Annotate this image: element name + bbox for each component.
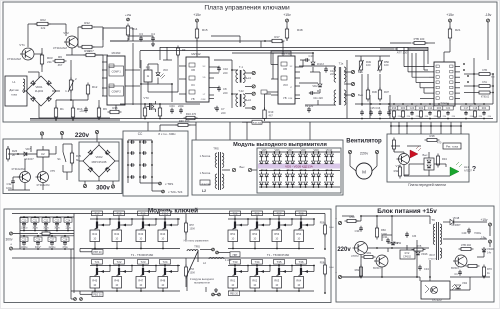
svg-text:+C1: +C1 xyxy=(79,109,85,113)
svg-text:СОМ: СОМ xyxy=(201,99,206,101)
svg-text:Вых2: Вых2 xyxy=(245,99,252,102)
svg-text:220n: 220n xyxy=(178,104,184,108)
svg-text:КТ3102АМ: КТ3102АМ xyxy=(7,57,21,61)
svg-text:КВРС3510В: КВРС3510В xyxy=(92,160,107,164)
svg-text:ВС547: ВС547 xyxy=(373,266,381,270)
svg-text:R15: R15 xyxy=(202,28,208,32)
svg-text:R32: R32 xyxy=(84,21,90,25)
svg-text:R1: R1 xyxy=(60,107,64,111)
svg-text:VT3: VT3 xyxy=(143,96,149,100)
svg-text:~: ~ xyxy=(335,271,337,275)
svg-text:R12: R12 xyxy=(92,85,98,89)
svg-text:C10: C10 xyxy=(223,67,228,71)
svg-text:С7А: С7А xyxy=(482,81,487,84)
svg-text:тока: тока xyxy=(11,93,17,97)
svg-text:220: 220 xyxy=(223,71,228,75)
svg-text:R48: R48 xyxy=(160,278,165,282)
svg-text:Вых: Вых xyxy=(239,165,245,169)
svg-text:C33: C33 xyxy=(412,236,417,238)
svg-text:R43: R43 xyxy=(138,232,143,236)
svg-text:C31: C31 xyxy=(383,235,388,239)
svg-text:R14: R14 xyxy=(132,27,138,31)
svg-text:+15v: +15v xyxy=(193,13,201,17)
svg-text:R63: R63 xyxy=(274,278,279,282)
svg-text:КТ3102АМ: КТ3102АМ xyxy=(53,46,67,50)
svg-text:R44: R44 xyxy=(160,232,165,236)
svg-text:VD2: VD2 xyxy=(462,281,468,285)
svg-text:VD2: VD2 xyxy=(312,84,318,88)
svg-text:C7: C7 xyxy=(221,107,225,111)
svg-text:R62: R62 xyxy=(252,278,257,282)
svg-text:300v: 300v xyxy=(6,238,13,242)
svg-text:100б: 100б xyxy=(190,272,196,275)
svg-text:КУ2: КУ2 xyxy=(405,251,410,255)
svg-text:-15v: -15v xyxy=(485,13,492,17)
svg-text:УВ: УВ xyxy=(283,96,287,100)
svg-text:M: M xyxy=(362,170,366,175)
svg-text:Выс: Выс xyxy=(423,153,429,157)
svg-text:На плату управления: На плату управления xyxy=(184,240,209,243)
svg-text:1.5витка: 1.5витка xyxy=(200,154,211,158)
svg-text:КТВ 202: КТВ 202 xyxy=(461,243,471,247)
svg-text:С20: С20 xyxy=(410,107,415,110)
svg-text:Блок питания +15v: Блок питания +15v xyxy=(377,208,437,215)
svg-text:VD16: VD16 xyxy=(421,252,428,256)
svg-text:R17: R17 xyxy=(274,35,280,39)
svg-text:ОВ: ОВ xyxy=(283,67,287,71)
svg-text:РВ2 20: РВ2 20 xyxy=(93,294,102,297)
svg-text:АТТ 100: АТТ 100 xyxy=(397,51,408,55)
svg-text:R24: R24 xyxy=(482,107,487,110)
svg-text:CC: CC xyxy=(138,132,143,136)
svg-text:R16 470: R16 470 xyxy=(186,112,197,116)
svg-text:R47: R47 xyxy=(138,278,143,282)
svg-text:HL1: HL1 xyxy=(464,165,469,169)
svg-text:467: 467 xyxy=(269,114,274,118)
svg-text:Т34: Т34 xyxy=(255,260,260,264)
svg-text:220v: 220v xyxy=(360,152,368,156)
svg-text:-15v: -15v xyxy=(480,236,487,240)
svg-text:VD7: VD7 xyxy=(25,147,31,151)
svg-text:КУ5: КУ5 xyxy=(417,244,422,248)
svg-text:100б: 100б xyxy=(190,228,196,231)
svg-text:?: ? xyxy=(472,166,476,173)
svg-text:R6: R6 xyxy=(58,55,62,59)
svg-text:R64: R64 xyxy=(296,278,301,282)
svg-text:R23: R23 xyxy=(437,107,442,110)
svg-text:R41: R41 xyxy=(92,232,97,236)
svg-text:R70: R70 xyxy=(487,267,492,271)
svg-text:220v: 220v xyxy=(75,132,90,139)
svg-text:R32: R32 xyxy=(394,169,399,173)
svg-text:14v: 14v xyxy=(487,251,492,255)
svg-text:R51: R51 xyxy=(230,232,235,236)
svg-text:22k: 22k xyxy=(41,26,46,30)
svg-text:Т21: Т21 xyxy=(95,260,100,264)
svg-text:Модуль выходного выпрямителя: Модуль выходного выпрямителя xyxy=(233,142,327,148)
svg-text:ХС: ХС xyxy=(203,66,206,68)
svg-text:470: 470 xyxy=(437,141,442,145)
svg-text:R20: R20 xyxy=(401,107,406,110)
svg-text:7000u: 7000u xyxy=(474,231,482,235)
svg-text:Плата управления ключами: Плата управления ключами xyxy=(204,5,290,12)
svg-text:220v: 220v xyxy=(337,247,351,253)
svg-text:VD: VD xyxy=(202,77,205,79)
svg-text:РВТ 20: РВТ 20 xyxy=(93,251,102,254)
svg-text:COMP 2: COMP 2 xyxy=(112,91,122,94)
svg-text:C32: C32 xyxy=(7,182,12,186)
svg-text:R19: R19 xyxy=(392,107,397,110)
svg-text:C15 C16: C15 C16 xyxy=(370,106,381,110)
svg-text:C23: C23 xyxy=(55,218,60,222)
svg-text:VD20: VD20 xyxy=(487,247,494,251)
svg-text:+15v: +15v xyxy=(446,13,454,17)
svg-text:СОМ: СОМ xyxy=(288,98,293,100)
svg-text:4 обм: 4 обм xyxy=(225,259,232,262)
svg-text:R36: R36 xyxy=(372,90,377,94)
svg-text:22k: 22k xyxy=(47,60,52,64)
svg-text:L1: L1 xyxy=(12,80,16,84)
svg-text:C34: C34 xyxy=(424,267,429,271)
svg-text:КТ8162: КТ8162 xyxy=(481,96,490,99)
svg-text:4 витка: 4 витка xyxy=(201,182,211,186)
svg-text:РВ5 20: РВ5 20 xyxy=(230,293,239,296)
svg-text:VD17: VD17 xyxy=(429,255,435,257)
svg-text:+15v: +15v xyxy=(480,218,487,222)
svg-text:220: 220 xyxy=(221,111,226,115)
svg-text:C04: C04 xyxy=(169,104,175,108)
svg-text:С24: С24 xyxy=(446,107,451,110)
svg-text:Т22: Т22 xyxy=(117,260,122,264)
svg-text:TRS: TRS xyxy=(213,147,219,151)
svg-text:R48: R48 xyxy=(297,28,303,32)
svg-text:М2712: М2712 xyxy=(191,52,201,56)
svg-text:КТ872: КТ872 xyxy=(351,254,359,258)
svg-text:Т1 - Т8 IRFP460: Т1 - Т8 IRFP460 xyxy=(267,253,290,257)
svg-text:ПВТ: ПВТ xyxy=(233,254,238,257)
svg-text:С18: С18 xyxy=(473,107,478,110)
svg-text:PC123: PC123 xyxy=(432,298,442,302)
svg-text:R38: R38 xyxy=(430,134,435,138)
svg-text:Т1 - Т8 IRFP460: Т1 - Т8 IRFP460 xyxy=(131,253,154,257)
svg-text:+15v: +15v xyxy=(283,13,291,17)
svg-text:C8: C8 xyxy=(223,87,227,91)
svg-text:R34: R34 xyxy=(442,157,447,161)
svg-text:R52: R52 xyxy=(252,232,257,236)
svg-text:С17: С17 xyxy=(464,107,469,110)
svg-text:Вых1: Вых1 xyxy=(245,77,252,80)
svg-text:Датчик: Датчик xyxy=(9,88,19,92)
svg-text:Т-02: Т-02 xyxy=(238,89,244,93)
svg-text:Т36: Т36 xyxy=(299,260,304,264)
svg-text:Т24: Т24 xyxy=(163,260,168,264)
svg-text:R62: R62 xyxy=(355,268,360,272)
svg-text:C11 220: C11 220 xyxy=(313,96,323,100)
svg-text:100б: 100б xyxy=(329,227,335,229)
svg-text:VT5: VT5 xyxy=(50,169,55,173)
svg-text:+: + xyxy=(10,243,12,247)
svg-text:Вентилятор: Вентилятор xyxy=(346,139,382,145)
svg-text:1.5витка: 1.5витка xyxy=(200,171,211,175)
svg-text:R9: R9 xyxy=(182,48,186,52)
svg-text:Т23: Т23 xyxy=(141,260,146,264)
svg-text:R46 300: R46 300 xyxy=(179,119,190,123)
svg-text:VD5 - VD26 КД213А: VD5 - VD26 КД213А xyxy=(285,165,313,169)
svg-text:R18 300: R18 300 xyxy=(253,122,262,124)
svg-text:C27: C27 xyxy=(50,238,55,242)
svg-text:РТВ 100: РТВ 100 xyxy=(414,37,425,41)
svg-text:S1: S1 xyxy=(57,157,61,161)
svg-text:R9: R9 xyxy=(103,107,107,111)
svg-text:100: 100 xyxy=(384,63,389,67)
svg-text:К2: К2 xyxy=(41,152,45,156)
svg-text:VD3: VD3 xyxy=(163,69,168,72)
svg-text:R16: R16 xyxy=(112,106,118,110)
svg-text:ОВ: ОВ xyxy=(191,68,195,72)
svg-text:x T20~T24: x T20~T24 xyxy=(168,190,183,194)
svg-text:R37: R37 xyxy=(384,90,389,94)
svg-text:R19: R19 xyxy=(269,110,274,114)
svg-text:C26: C26 xyxy=(36,238,41,242)
svg-text:R58: R58 xyxy=(320,262,325,265)
svg-text:300v: 300v xyxy=(96,185,110,192)
svg-text:R21: R21 xyxy=(455,28,461,32)
svg-text:КТ3102АМ: КТ3102АМ xyxy=(12,167,25,171)
svg-text:C4: C4 xyxy=(151,32,155,36)
svg-text:ВС547: ВС547 xyxy=(451,266,459,270)
svg-text:C22: C22 xyxy=(44,218,49,222)
svg-text:467: 467 xyxy=(58,63,63,67)
svg-text:~: ~ xyxy=(335,217,337,221)
svg-text:C20: C20 xyxy=(22,218,27,222)
svg-text:C3: C3 xyxy=(139,32,143,36)
svg-text:СР602: СР602 xyxy=(403,255,411,259)
svg-text:Плата передней панели: Плата передней панели xyxy=(408,183,446,187)
svg-text:R60: R60 xyxy=(381,228,386,232)
svg-text:C40: C40 xyxy=(462,231,467,235)
svg-text:UF4007: UF4007 xyxy=(24,157,34,161)
svg-text:R54: R54 xyxy=(296,232,301,236)
svg-text:R56: R56 xyxy=(320,222,325,225)
svg-text:Т35: Т35 xyxy=(277,260,282,264)
svg-text:R59: R59 xyxy=(350,215,355,219)
svg-text:COMP 1: COMP 1 xyxy=(112,71,122,74)
svg-text:8 x 1u - 600v: 8 x 1u - 600v xyxy=(158,132,176,136)
svg-text:VD18: VD18 xyxy=(453,216,460,220)
svg-text:C1: C1 xyxy=(454,272,458,276)
svg-text:R22: R22 xyxy=(419,107,424,110)
svg-text:C21: C21 xyxy=(33,218,38,222)
svg-text:470: 470 xyxy=(44,230,49,233)
svg-text:КЦ402: КЦ402 xyxy=(35,89,44,93)
svg-text:+15в: +15в xyxy=(125,13,132,17)
svg-text:R42: R42 xyxy=(114,232,119,236)
svg-text:R61: R61 xyxy=(367,251,372,255)
svg-text:выпрямителя: выпрямителя xyxy=(194,281,210,284)
svg-text:100: 100 xyxy=(366,63,371,67)
svg-text:Т33: Т33 xyxy=(233,260,238,264)
svg-text:СF480T: СF480T xyxy=(451,223,461,227)
svg-text:С14: С14 xyxy=(428,107,433,110)
svg-text:Т1s: Т1s xyxy=(339,62,344,66)
svg-text:УВ: УВ xyxy=(191,97,195,101)
svg-text:R26: R26 xyxy=(12,149,18,153)
svg-text:Рег. тока: Рег. тока xyxy=(446,145,458,149)
svg-text:220: 220 xyxy=(223,91,228,95)
svg-text:С7В: С7В xyxy=(482,69,487,72)
svg-text:C30: C30 xyxy=(355,229,360,233)
svg-text:x TRS: x TRS xyxy=(165,182,173,186)
svg-text:R46: R46 xyxy=(114,278,119,282)
svg-text:L2: L2 xyxy=(202,189,206,193)
svg-text:VD3: VD3 xyxy=(283,84,288,87)
svg-text:C9 220: C9 220 xyxy=(305,104,314,108)
svg-text:Вых: Вых xyxy=(358,93,364,97)
svg-text:ОС: ОС xyxy=(191,83,195,87)
svg-text:100б: 100б xyxy=(329,267,335,269)
svg-text:R61: R61 xyxy=(230,278,235,282)
svg-text:VT1: VT1 xyxy=(19,43,25,47)
svg-text:C25: C25 xyxy=(22,238,27,242)
svg-text:МС393: МС393 xyxy=(112,51,121,55)
svg-text:R45: R45 xyxy=(92,278,97,282)
svg-text:TRS: TRS xyxy=(194,245,200,249)
svg-text:Т6: Т6 xyxy=(431,218,435,222)
svg-text:C24: C24 xyxy=(66,218,71,222)
svg-text:100u: 100u xyxy=(6,186,12,190)
svg-text:R07: R07 xyxy=(88,49,94,53)
svg-text:VD02: VD02 xyxy=(96,155,103,159)
svg-text:Т-1: Т-1 xyxy=(239,65,243,69)
svg-text:C28: C28 xyxy=(63,238,68,242)
svg-text:R02: R02 xyxy=(40,18,46,22)
svg-text:R53: R53 xyxy=(274,232,279,236)
svg-text:LF4007: LF4007 xyxy=(428,258,436,260)
